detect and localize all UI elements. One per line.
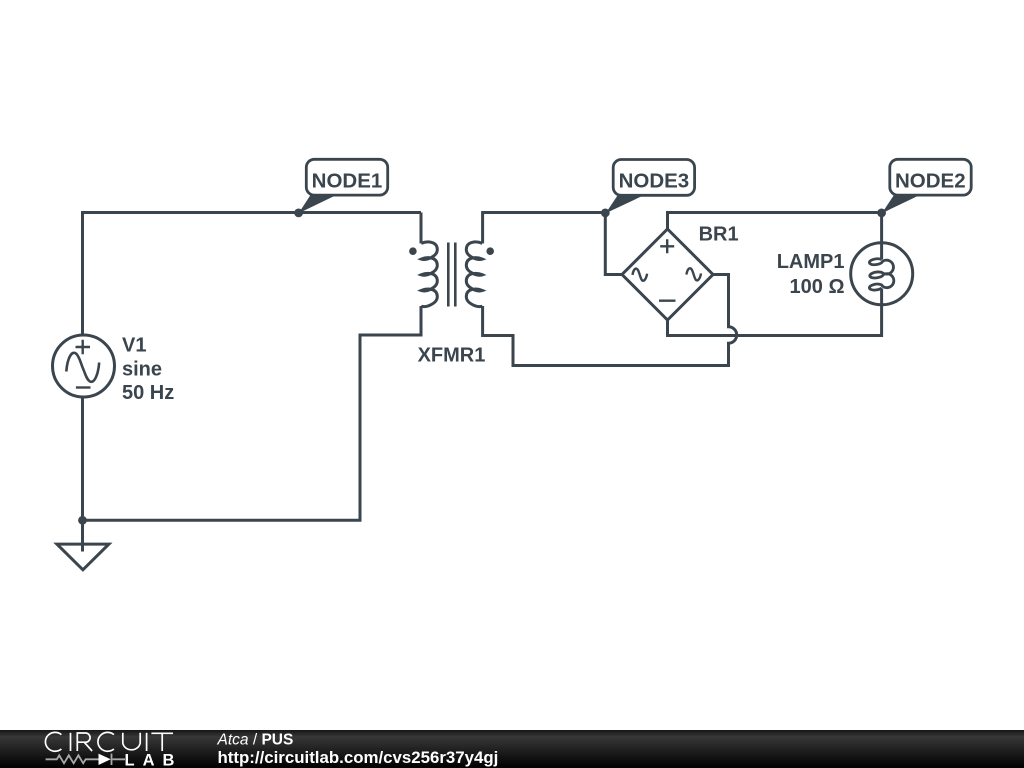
wire V1 bottom lead bbox=[81, 397, 84, 520]
svg-text:NODE3: NODE3 bbox=[619, 169, 690, 192]
svg-text:100 Ω: 100 Ω bbox=[790, 276, 845, 298]
wire secondary top lead to NODE3 bbox=[483, 213, 606, 244]
node flag NODE1 bbox=[294, 159, 387, 217]
transformer XFMR1 secondary winding bbox=[466, 242, 482, 307]
svg-text:Atca / PUS: Atca / PUS bbox=[217, 731, 294, 748]
svg-text:BR1: BR1 bbox=[699, 224, 739, 246]
bridge rectifier BR1 bbox=[622, 229, 713, 320]
wire lamp bottom to bridge - output bbox=[668, 304, 882, 336]
ground bbox=[57, 520, 109, 570]
wire lamp top lead bbox=[880, 213, 883, 245]
transformer core bbox=[448, 243, 455, 307]
wire V1 top lead bbox=[81, 211, 84, 335]
voltage source V1 bbox=[53, 335, 115, 397]
footer logo resistor-diode-LAB bbox=[46, 751, 183, 768]
svg-text:V1: V1 bbox=[122, 335, 146, 357]
svg-text:NODE2: NODE2 bbox=[895, 169, 966, 192]
wire ground net: primary bottom to ground bbox=[83, 306, 422, 520]
footer bar bbox=[0, 730, 1024, 768]
svg-text:LAMP1: LAMP1 bbox=[777, 251, 845, 273]
node flag NODE3 bbox=[606, 160, 695, 214]
svg-text:http://circuitlab.com/cvs256r3: http://circuitlab.com/cvs256r37y4gj bbox=[218, 748, 499, 767]
node NODE2 dot bbox=[877, 209, 886, 218]
wire net NODE1 top horizontal bbox=[83, 211, 422, 214]
transformer XFMR1 primary top lead bbox=[420, 213, 423, 244]
svg-text:50 Hz: 50 Hz bbox=[122, 382, 174, 404]
transformer phasing dot secondary bbox=[486, 247, 494, 255]
transformer phasing dot primary bbox=[409, 247, 417, 255]
svg-text:NODE1: NODE1 bbox=[312, 169, 383, 192]
node NODE3 dot bbox=[601, 209, 610, 218]
junction dot at ground node bbox=[78, 516, 87, 525]
svg-text:XFMR1: XFMR1 bbox=[418, 345, 486, 367]
svg-text:LAB: LAB bbox=[125, 751, 183, 768]
svg-text:sine: sine bbox=[122, 359, 162, 381]
wire bridge AC right to transformer secondary bottom (with hop) bbox=[483, 275, 737, 366]
transformer XFMR1 primary winding bbox=[421, 242, 437, 307]
wire NODE3 down to bridge AC input left bbox=[605, 213, 622, 275]
node flag NODE2 bbox=[882, 159, 971, 213]
footer logo CIRCUIT bbox=[45, 732, 173, 751]
lamp LAMP1 bbox=[851, 243, 913, 305]
wire bridge + output to NODE2 top bbox=[668, 213, 882, 230]
